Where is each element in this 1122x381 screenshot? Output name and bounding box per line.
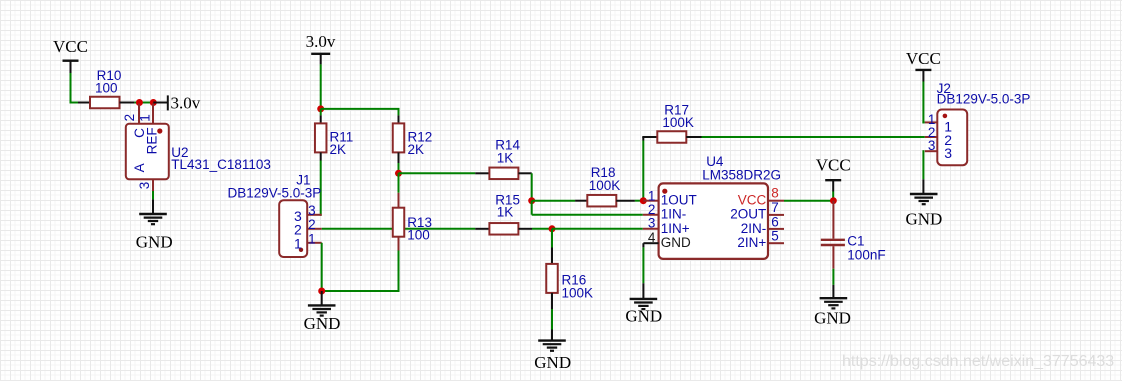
- wire J1 pin 1 down to GND rail: [321, 243, 323, 291]
- junction node 3.0v (left dot): [136, 99, 143, 106]
- pin J2-2 stub: [925, 125, 938, 140]
- svg-text:2: 2: [308, 217, 316, 232]
- svg-text:100K: 100K: [562, 286, 594, 301]
- svg-text:REF: REF: [145, 127, 160, 154]
- resistor R14 1K: [489, 168, 518, 180]
- ground GND under U4 pin 4: [625, 299, 662, 326]
- wire J1 pin 2 to R15 (passes behind R13): [322, 228, 490, 230]
- svg-text:GND: GND: [814, 308, 851, 327]
- resistor R12 2K: [393, 123, 433, 156]
- pin U4-4 stub and wire to GND: [643, 243, 658, 299]
- svg-text:7: 7: [771, 200, 779, 215]
- svg-text:VCC: VCC: [738, 193, 767, 208]
- label J1 value DB129V-5.0-3P: [228, 186, 322, 201]
- svg-text:GND: GND: [661, 235, 691, 250]
- label J2 value DB129V-5.0-3P: [937, 91, 1031, 106]
- pin U4-2 stub (1IN-): [643, 214, 659, 216]
- svg-text:8: 8: [771, 186, 779, 201]
- svg-text:TL431_C181103: TL431_C181103: [171, 157, 271, 172]
- wire R12 bottom to node A: [398, 152, 400, 173]
- wire U2 pin 3 to GND: [152, 179, 154, 214]
- pin U4-4 name/number (GND): [648, 230, 691, 250]
- op-amp U4 LM358DR2G body: [659, 183, 768, 259]
- wire junction C down to R16: [551, 229, 553, 264]
- svg-text:3: 3: [137, 182, 152, 190]
- label R18 refdes/value: [589, 165, 621, 193]
- pin U4-3 stub (1IN+): [643, 228, 659, 230]
- wire 3.0v stub down: [320, 54, 322, 109]
- wire U4 pin 8 to VCC junction: [784, 200, 833, 202]
- svg-text:1IN+: 1IN+: [661, 221, 690, 236]
- pin U4-2 name/number: [648, 202, 686, 222]
- pin J1-1 stub: [307, 232, 322, 247]
- wire C1 bottom to GND: [832, 246, 834, 298]
- pin U4-5 name/number: [737, 229, 778, 251]
- svg-text:3.0v: 3.0v: [306, 32, 336, 51]
- pin U4-8 name/number (VCC): [738, 186, 779, 208]
- transistor U2 TL431_C181103 body: [122, 114, 169, 189]
- pin J2-3 stub: [925, 138, 938, 153]
- connector J2 body DB129V-5.0-3P: [937, 110, 967, 166]
- pin J2-1 stub: [925, 112, 938, 127]
- svg-text:3: 3: [648, 215, 656, 230]
- pin U4-1 name/number: [648, 189, 697, 208]
- svg-text:C1: C1: [847, 233, 864, 248]
- svg-text:2OUT: 2OUT: [730, 207, 766, 222]
- junction C (R15/R16/1IN+): [549, 225, 556, 232]
- ground GND under U2: [136, 214, 173, 252]
- svg-text:2: 2: [122, 114, 137, 122]
- wire VCC stub to junction: [832, 180, 834, 201]
- ground GND under J1: [304, 291, 341, 333]
- svg-text:GND: GND: [905, 209, 942, 228]
- label U2 refdes: [171, 145, 188, 160]
- wire rail to R12 top: [321, 109, 400, 124]
- wire junction B to R18: [532, 200, 588, 202]
- ground GND under J2: [905, 194, 942, 228]
- svg-text:1: 1: [308, 232, 316, 247]
- svg-text:3: 3: [944, 145, 952, 161]
- resistor R18 100K: [587, 195, 616, 207]
- resistor R17 100K (feedback): [657, 131, 686, 143]
- svg-text:GND: GND: [304, 314, 341, 333]
- pin U4-7 name/number: [730, 200, 778, 222]
- pin U4-5 stub: [768, 242, 784, 244]
- wire rail to R11 top: [320, 109, 322, 124]
- resistor R13 100: [393, 208, 432, 243]
- wire feedback from op-amp node up to R17: [642, 137, 657, 201]
- svg-text:100K: 100K: [589, 178, 621, 193]
- pin J1-2 stub: [307, 217, 322, 232]
- label R14 refdes/value: [495, 138, 520, 166]
- wire R14 to junction B: [518, 173, 531, 200]
- label J2 refdes: [937, 81, 951, 96]
- label J1 refdes: [296, 173, 310, 188]
- connector J1 body DB129V-5.0-3P: [279, 200, 307, 257]
- wire R10 to node 3.0v: [120, 102, 154, 104]
- pin U4-7 stub: [768, 214, 784, 216]
- svg-text:100nF: 100nF: [847, 248, 885, 263]
- svg-text:1K: 1K: [497, 205, 514, 220]
- resistor R15 1K: [489, 223, 518, 235]
- junction node A (R12/R13/R14): [395, 170, 402, 177]
- svg-text:2K: 2K: [330, 142, 347, 157]
- wire U2 pin 2 stub: [138, 104, 140, 124]
- capacitor C1 100nF: [821, 233, 886, 262]
- svg-text:DB129V-5.0-3P: DB129V-5.0-3P: [937, 91, 1031, 106]
- pin U4-6 name/number: [741, 214, 779, 236]
- svg-text:1: 1: [137, 114, 152, 122]
- wire VCC down to J2 pin 1: [922, 70, 924, 124]
- svg-text:100: 100: [95, 80, 118, 95]
- wire junction down to C1: [832, 201, 834, 239]
- svg-text:100K: 100K: [662, 115, 694, 130]
- label R15 refdes/value: [495, 192, 520, 219]
- junction node 3.0v (right dot): [150, 99, 157, 106]
- wire node A to R14: [399, 172, 490, 174]
- wire R11 bottom to J1 pin 3: [320, 152, 322, 215]
- power VCC symbol above J2: [906, 49, 941, 70]
- wire J2 pin 3 to GND: [922, 150, 924, 194]
- svg-text:DB129V-5.0-3P: DB129V-5.0-3P: [228, 186, 322, 201]
- pin J1-3 stub: [307, 203, 322, 218]
- pin U4-6 stub: [768, 228, 784, 230]
- svg-text:2IN+: 2IN+: [737, 235, 766, 250]
- svg-text:6: 6: [771, 214, 779, 229]
- label U4 value LM358DR2G: [702, 167, 781, 182]
- wire R13 bottom to GND rail: [322, 237, 400, 292]
- power VCC symbol above C1: [816, 156, 851, 181]
- svg-text:VCC: VCC: [906, 49, 941, 68]
- label U2 value TL431_C181103: [171, 157, 271, 172]
- svg-text:GND: GND: [136, 233, 173, 252]
- ground GND under R16: [534, 341, 571, 372]
- junction 3.0v rail: [317, 105, 324, 112]
- svg-text:A: A: [132, 163, 147, 172]
- svg-text:1: 1: [294, 236, 302, 252]
- svg-text:VCC: VCC: [53, 37, 88, 56]
- svg-text:100: 100: [407, 227, 430, 242]
- svg-text:1OUT: 1OUT: [661, 193, 697, 208]
- wire U2 pin 1 stub: [152, 104, 154, 124]
- pin U4-8 stub (VCC): [768, 200, 784, 202]
- wire junction B down to 1IN-: [532, 201, 643, 215]
- net label 3.0v flag: [153, 94, 200, 113]
- wire VCC rail to R10 (net VCC): [70, 61, 91, 104]
- pin U4-1 stub (1OUT): [643, 200, 658, 202]
- power VCC symbol (top-left): [53, 37, 88, 61]
- junction GND rail at J1: [318, 288, 325, 295]
- wire R17 to J2 pin 2 (long net): [686, 136, 925, 138]
- svg-text:https://blog.csdn.net/weixin_3: https://blog.csdn.net/weixin_37756433: [842, 353, 1114, 370]
- label R17 refdes/value: [662, 102, 694, 130]
- svg-text:3: 3: [928, 138, 936, 153]
- junction VCC/C1 node: [830, 197, 837, 204]
- svg-text:3: 3: [308, 203, 316, 218]
- label U4 refdes: [706, 154, 724, 169]
- wire R15 to junction C: [518, 228, 552, 230]
- resistor R16 100K: [546, 264, 593, 301]
- svg-text:LM358DR2G: LM358DR2G: [702, 167, 781, 182]
- svg-text:2K: 2K: [408, 142, 425, 157]
- svg-text:5: 5: [771, 229, 779, 244]
- resistor R11 2K: [315, 123, 353, 156]
- svg-text:VCC: VCC: [816, 156, 851, 175]
- resistor R10 100: [90, 68, 121, 108]
- wire node A to R13 top: [398, 173, 400, 207]
- svg-text:1IN-: 1IN-: [661, 207, 687, 222]
- svg-text:GND: GND: [534, 353, 571, 372]
- pin U4-3 name/number: [648, 215, 690, 236]
- wire R16 bottom to GND: [551, 293, 553, 341]
- ground GND under C1: [814, 298, 851, 327]
- junction op-amp output node: [640, 197, 647, 204]
- svg-text:2IN-: 2IN-: [741, 221, 767, 236]
- svg-text:1K: 1K: [497, 150, 514, 165]
- power 3.0v symbol (top-middle): [306, 32, 336, 54]
- svg-text:3.0v: 3.0v: [171, 94, 201, 113]
- wire junction C to 1IN+: [552, 228, 643, 230]
- svg-text:GND: GND: [625, 307, 662, 326]
- watermark: [842, 353, 1114, 370]
- wire R18 to op-amp node: [616, 200, 643, 202]
- junction B (R14/R18/1IN- feed): [528, 197, 535, 204]
